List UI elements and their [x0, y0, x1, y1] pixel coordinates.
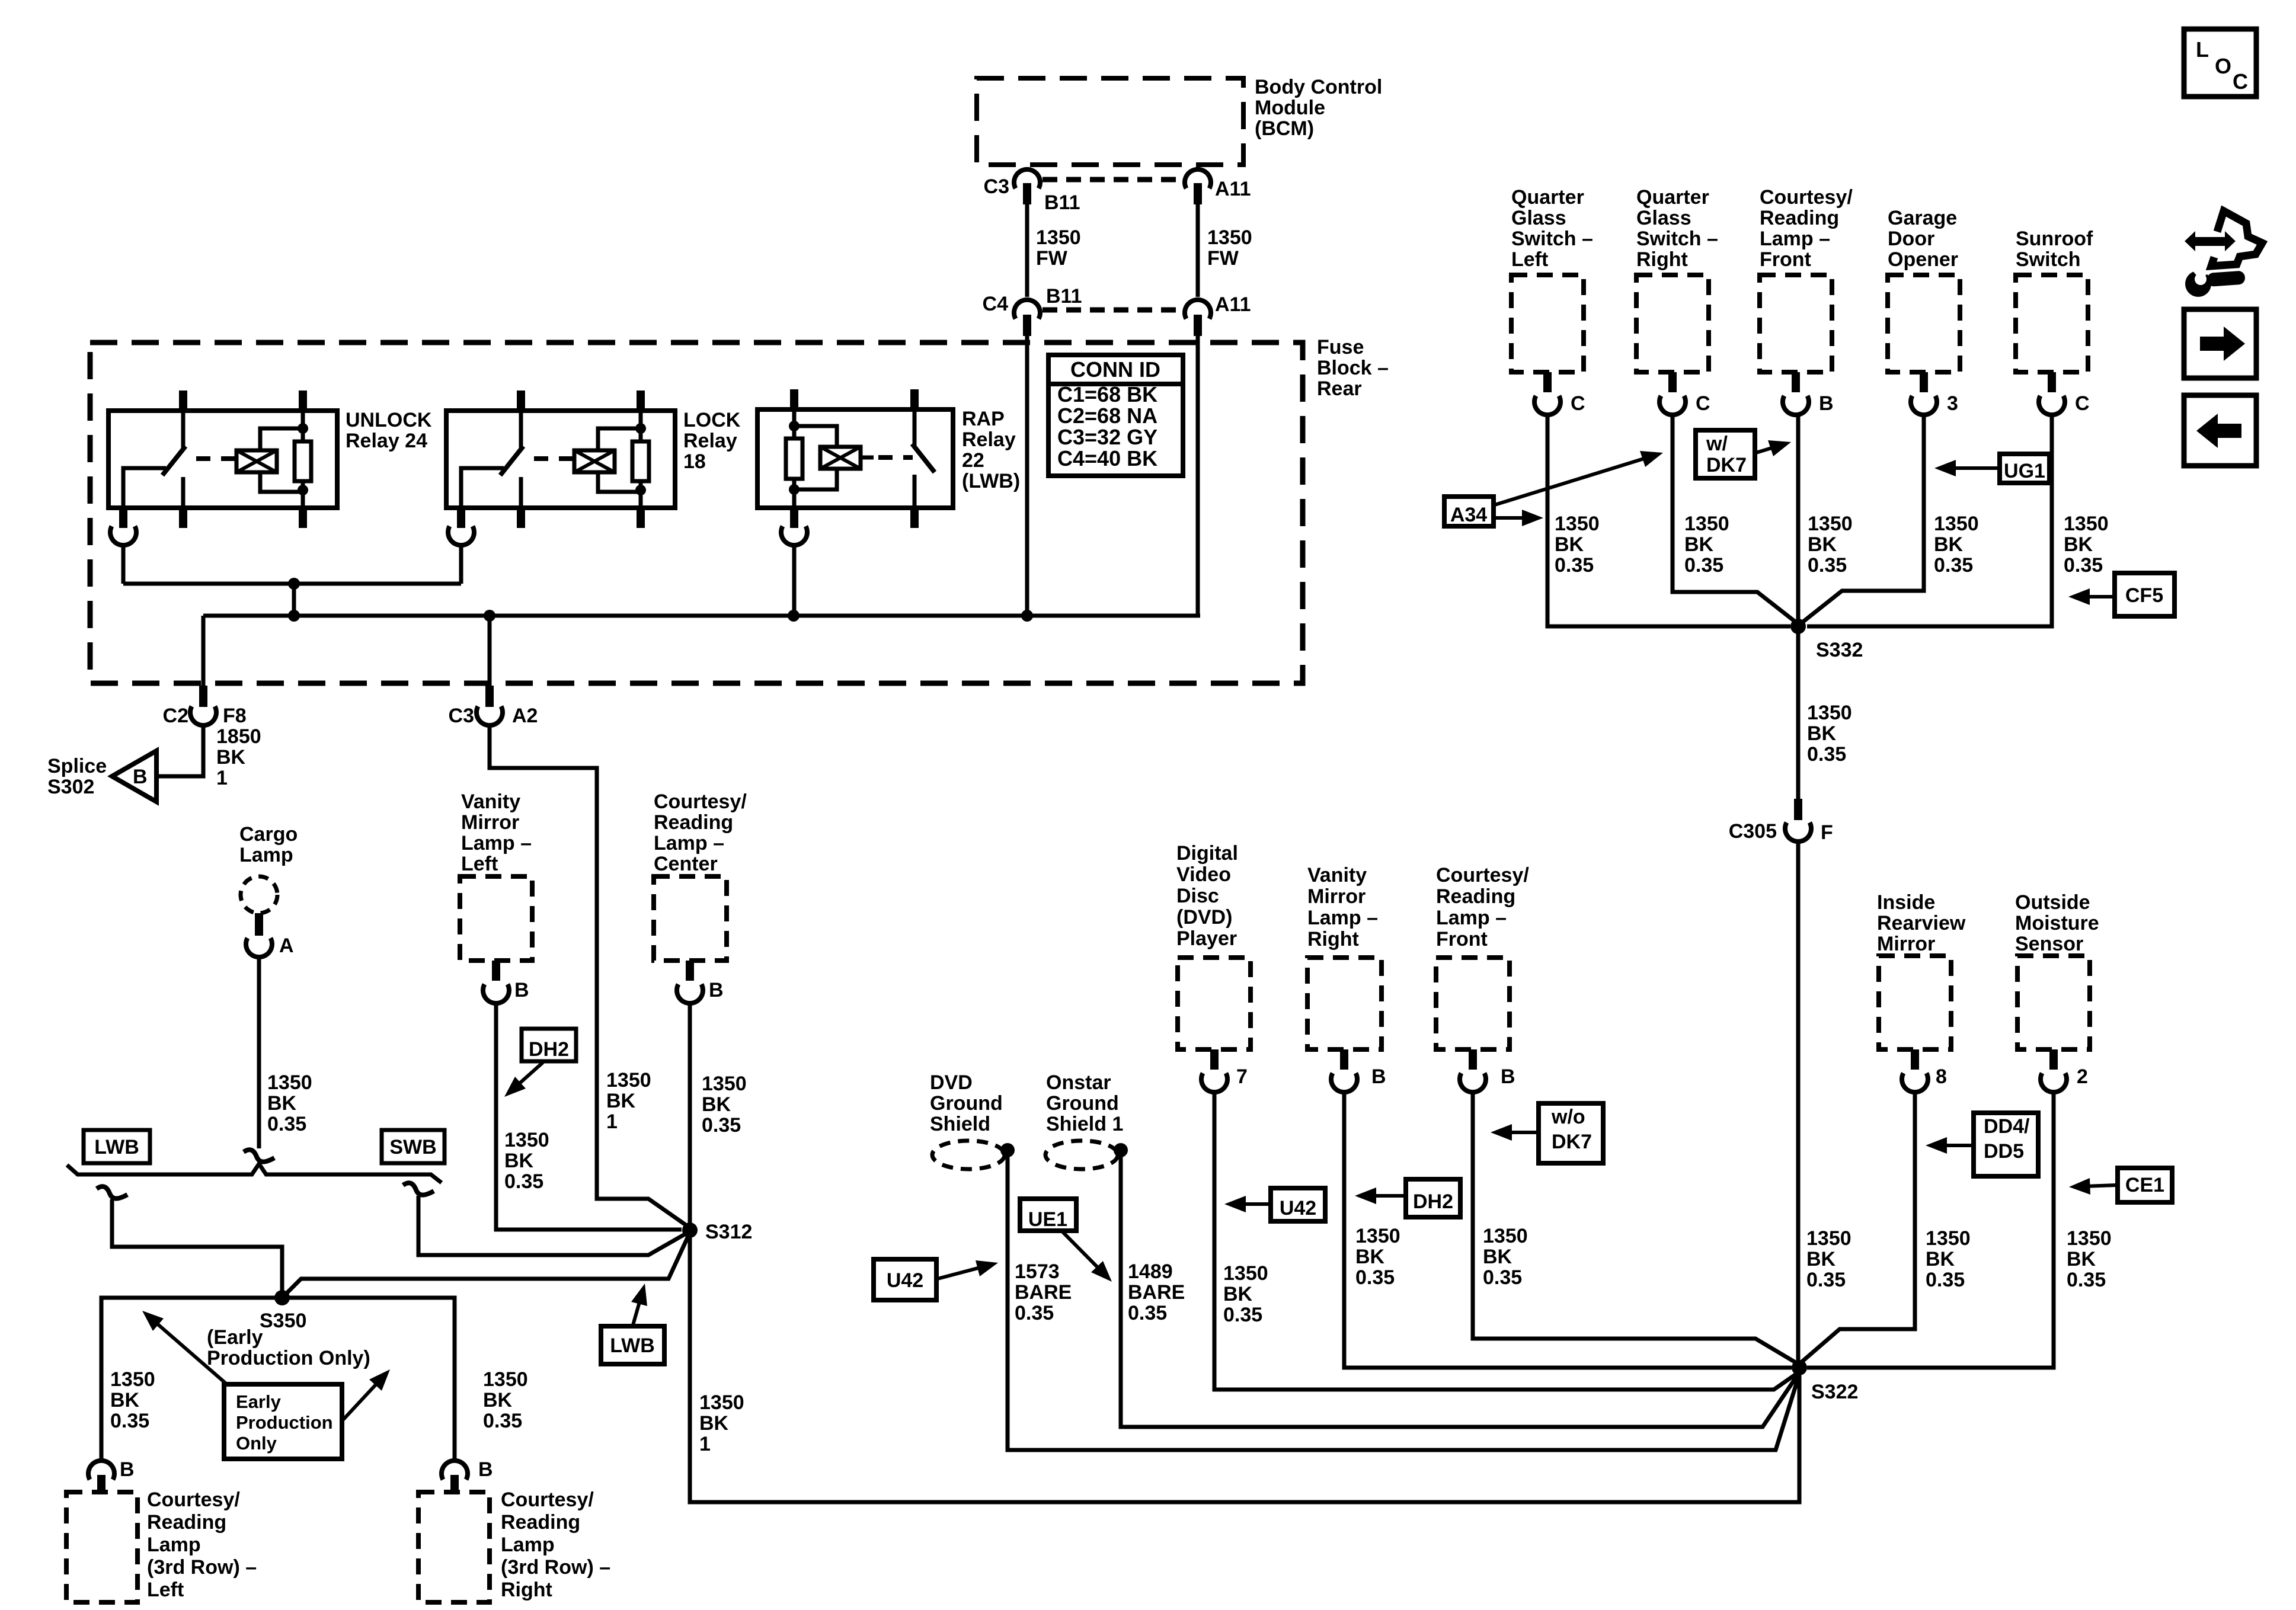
wire bus to C2 [202, 616, 206, 688]
svg-text:(3rd Row) –: (3rd Row) – [501, 1556, 610, 1579]
svg-text:Splice: Splice [47, 755, 107, 777]
wire to resistor RAP [792, 412, 797, 438]
svg-text:18: 18 [683, 450, 706, 473]
label wire 1350 BK 0.35 (3rd row left) [110, 1368, 155, 1432]
svg-text:1: 1 [699, 1433, 711, 1455]
svg-text:C4: C4 [983, 293, 1009, 315]
label 8 [1936, 1065, 1947, 1088]
pin Courtesy/Reading Lamp - Front [1792, 372, 1800, 392]
junction dot DVD shield [1000, 1143, 1015, 1157]
svg-text:Ground: Ground [1046, 1092, 1119, 1115]
svg-text:1: 1 [216, 767, 228, 789]
wire DVD player to S322 [1214, 1091, 1799, 1390]
resistor RAP [786, 438, 802, 479]
wire C305 to S322 [1796, 840, 1801, 1368]
icon box LOC [2184, 29, 2256, 97]
svg-text:UNLOCK: UNLOCK [346, 409, 432, 431]
label C3 [984, 175, 1009, 198]
svg-text:Front: Front [1760, 248, 1811, 271]
svg-text:1350: 1350 [1483, 1225, 1528, 1247]
svg-text:0.35: 0.35 [1926, 1269, 1965, 1291]
component box Inside Rearview Mirror [1879, 956, 1951, 1049]
icon wrench [2185, 263, 2246, 297]
label CONN ID header [1070, 357, 1160, 382]
arrow Early Production to left lamp wire [142, 1311, 228, 1385]
svg-text:DH2: DH2 [529, 1038, 569, 1061]
svg-text:O: O [2215, 54, 2231, 78]
note box Early Production Only [224, 1384, 342, 1459]
label Inside Rearview Mirror [1877, 891, 1966, 955]
label box CE1 [2118, 1168, 2172, 1202]
wire vanity left to S312 [496, 1002, 682, 1230]
wire A11 into fuse block [1196, 336, 1200, 616]
label box DD4/DD5 [1974, 1113, 2038, 1176]
strain squiggle SWB branch [403, 1183, 434, 1195]
label F [1821, 821, 1833, 844]
svg-text:0.35: 0.35 [483, 1410, 522, 1432]
label Vanity Mirror Lamp - Left [461, 790, 532, 875]
wire LOCK Relay 18 to bus [459, 544, 463, 584]
module box Body Control Module (BCM) [977, 78, 1243, 165]
component box Courtesy/Reading Lamp - Front (center) [1436, 958, 1510, 1049]
label L [2196, 37, 2209, 62]
svg-text:Reading: Reading [501, 1511, 580, 1534]
wire LWB branch to S350 [112, 1199, 282, 1298]
svg-text:F8: F8 [223, 705, 247, 727]
svg-text:Early: Early [236, 1391, 282, 1412]
svg-text:(BCM): (BCM) [1255, 117, 1314, 140]
label O [2215, 54, 2231, 78]
svg-text:Lamp: Lamp [501, 1534, 555, 1556]
svg-text:Courtesy/: Courtesy/ [654, 790, 747, 813]
svg-text:Vanity: Vanity [461, 790, 520, 813]
svg-text:Player: Player [1176, 927, 1237, 950]
pin bottom-right LOCK Relay 18 [637, 508, 645, 528]
svg-text:Courtesy/: Courtesy/ [1436, 864, 1529, 886]
svg-text:Center: Center [654, 853, 718, 875]
svg-text:Inside: Inside [1877, 891, 1935, 914]
wire C2 to splice [159, 724, 203, 776]
svg-text:0.35: 0.35 [1015, 1302, 1054, 1324]
svg-text:BK: BK [2067, 1248, 2096, 1270]
svg-text:A11: A11 [1215, 178, 1251, 200]
junction dot upper bus [288, 578, 300, 590]
connector arc Sunroof Switch [2039, 396, 2065, 415]
label CONN ID rows [1057, 382, 1157, 470]
arrow DH2 to vanity right wire [1355, 1188, 1405, 1204]
svg-text:0.35: 0.35 [1128, 1302, 1167, 1324]
arrow UG1 to garage door wire [1934, 460, 1998, 476]
label wire 1350 BK 0.35 (courtesy front) [1483, 1225, 1528, 1289]
svg-text:Lamp –: Lamp – [654, 832, 724, 854]
svg-text:DH2: DH2 [1413, 1190, 1453, 1213]
label S322 [1811, 1381, 1858, 1403]
svg-text:1: 1 [606, 1110, 618, 1133]
svg-text:Cargo: Cargo [239, 823, 298, 846]
ground shield Onstar dashed ellipse [1045, 1141, 1118, 1169]
wire A11 to A11 [1196, 204, 1200, 297]
coil bracket bottom UNLOCK Relay 24 [260, 472, 303, 492]
pin C2 [199, 686, 207, 707]
svg-text:DD5: DD5 [1984, 1140, 2024, 1163]
svg-text:Left: Left [147, 1579, 184, 1601]
svg-text:1350: 1350 [2064, 513, 2109, 535]
label wire 1489 BARE 0.35 [1128, 1260, 1185, 1324]
svg-text:1350: 1350 [1223, 1262, 1268, 1285]
pin courtesy center B [686, 961, 694, 981]
pin Garage Door Opener [1920, 372, 1928, 392]
wire RAP to bus [792, 544, 797, 616]
svg-text:B11: B11 [1046, 285, 1082, 308]
wire C4 into fuse block [1025, 336, 1029, 616]
wire bus main (lower) [203, 614, 1200, 618]
svg-text:1350: 1350 [1806, 1227, 1851, 1250]
svg-text:Relay 24: Relay 24 [346, 430, 427, 452]
label box U42 (left) [874, 1259, 936, 1300]
svg-text:0.35: 0.35 [1807, 743, 1846, 766]
connector C3 (BCM side) arc [1014, 169, 1040, 188]
svg-text:1350: 1350 [110, 1368, 155, 1391]
wire S350 to S312 [282, 1233, 690, 1298]
coil bracket top LOCK Relay 18 [598, 428, 641, 450]
label pin letter B (Courtesy/Reading Lamp - Front) [1819, 392, 1834, 415]
svg-text:A: A [279, 934, 294, 957]
coil bracket bottom LOCK Relay 18 [598, 472, 641, 492]
svg-text:SWB: SWB [389, 1136, 436, 1158]
svg-text:Front: Front [1436, 928, 1488, 950]
svg-text:CE1: CE1 [2125, 1174, 2164, 1196]
svg-text:BK: BK [267, 1092, 297, 1115]
label Outside Moisture Sensor [2015, 891, 2099, 955]
pin rearview mirror 8 [1911, 1049, 1919, 1070]
coil RAP [820, 447, 861, 469]
svg-text:C: C [1571, 392, 1585, 415]
coil bracket top RAP [794, 426, 837, 447]
label Body Control Module (BCM) [1255, 76, 1382, 140]
component box Quarter Glass Switch - Left [1511, 275, 1584, 372]
svg-text:1489: 1489 [1128, 1260, 1173, 1283]
label 2 [2077, 1065, 2088, 1088]
svg-text:1350: 1350 [1808, 513, 1853, 535]
table CONN ID box [1048, 355, 1183, 476]
wire S332 to C305 [1796, 626, 1801, 801]
svg-text:Reading: Reading [1760, 207, 1839, 229]
splice symbol S302 triangle [112, 751, 156, 802]
label C305 [1729, 820, 1777, 843]
wire C3/A2 to S312 [490, 724, 690, 1228]
svg-text:0.35: 0.35 [1555, 554, 1594, 577]
pin C4 [1023, 315, 1031, 336]
svg-text:BK: BK [1223, 1283, 1253, 1305]
wire rearview mirror to S322 [1801, 1091, 1915, 1363]
coil stub RAP [861, 456, 874, 460]
svg-text:BK: BK [1934, 533, 1964, 556]
svg-text:Door: Door [1888, 228, 1934, 250]
svg-text:Courtesy/: Courtesy/ [1760, 186, 1853, 209]
switch contact LOCK Relay 18 [519, 413, 523, 449]
svg-text:Fuse: Fuse [1317, 336, 1364, 359]
ground shield DVD dashed ellipse [932, 1141, 1005, 1169]
svg-text:1850: 1850 [216, 725, 261, 748]
svg-text:(3rd Row) –: (3rd Row) – [147, 1556, 257, 1579]
arrow A34 to quarter right wire [1495, 451, 1663, 505]
svg-text:LOCK: LOCK [683, 409, 741, 431]
junction dot coil top LOCK Relay 18 [635, 423, 646, 434]
pin courtesy front B [1469, 1049, 1477, 1070]
pin top-right RAP [910, 389, 919, 412]
svg-text:Lamp –: Lamp – [1436, 907, 1507, 929]
label pin letter C (Sunroof Switch) [2075, 392, 2090, 415]
svg-text:1350: 1350 [1036, 226, 1081, 249]
wire vanity right to S322 [1344, 1091, 1792, 1368]
component box Courtesy/Reading Lamp (3rd Row) - Left [66, 1492, 137, 1602]
label Splice S302 [47, 755, 107, 798]
svg-text:Module: Module [1255, 97, 1325, 119]
switch lower contact LOCK Relay 18 [519, 477, 523, 508]
component box Courtesy/Reading Lamp - Center [654, 876, 727, 961]
svg-text:Outside: Outside [2015, 891, 2090, 914]
svg-text:Rearview: Rearview [1877, 912, 1966, 934]
svg-text:1350: 1350 [1934, 513, 1979, 535]
svg-text:FW: FW [1036, 247, 1068, 270]
pin vanity left B [492, 961, 500, 981]
junction dot bus at C3 drop [484, 610, 495, 622]
svg-text:UG1: UG1 [2004, 460, 2045, 482]
svg-text:Lamp –: Lamp – [1760, 228, 1830, 250]
label B inside splice [133, 766, 148, 788]
pin bottom-left LOCK Relay 18 [457, 508, 465, 528]
label wire 1350 BK 0.35 (DVD player) [1223, 1262, 1268, 1326]
svg-text:Mirror: Mirror [461, 811, 519, 834]
label box UE1 [1020, 1199, 1076, 1231]
pin moisture sensor 2 [2049, 1049, 2058, 1070]
label C4 [983, 293, 1009, 315]
svg-text:UE1: UE1 [1028, 1208, 1067, 1231]
svg-text:Reading: Reading [147, 1511, 226, 1534]
wire courtesy center through S312 to S322 [690, 1002, 1799, 1502]
label Quarter Glass Switch - Left [1511, 186, 1593, 271]
label pin letter C (Quarter Glass Switch - Right) [1696, 392, 1710, 415]
svg-text:A34: A34 [1450, 504, 1487, 526]
svg-text:Shield: Shield [930, 1113, 990, 1135]
svg-text:1350: 1350 [1684, 513, 1729, 535]
svg-text:L: L [2196, 37, 2209, 62]
arrow U42 to DVD shield wire [938, 1260, 998, 1279]
svg-text:0.35: 0.35 [1806, 1269, 1846, 1291]
pin DVD player 7 [1210, 1049, 1219, 1070]
svg-text:0.35: 0.35 [267, 1113, 306, 1135]
wire C3 to C4 [1025, 204, 1029, 297]
svg-text:Switch –: Switch – [1636, 228, 1718, 250]
svg-text:C: C [1696, 392, 1710, 415]
arrow w/o DK7 to wire [1491, 1124, 1537, 1141]
svg-text:Lamp –: Lamp – [461, 832, 532, 854]
switch contact RAP [913, 412, 917, 446]
pin bottom-right RAP [910, 508, 919, 528]
svg-text:S312: S312 [705, 1221, 752, 1243]
svg-text:LWB: LWB [94, 1136, 139, 1158]
svg-text:0.35: 0.35 [504, 1170, 543, 1193]
svg-text:BK: BK [1807, 722, 1837, 745]
wire SWB branch to S312 [418, 1196, 690, 1255]
label box A34 [1444, 497, 1494, 526]
svg-text:BK: BK [1926, 1248, 1955, 1270]
svg-text:Relay: Relay [683, 430, 737, 452]
svg-text:B: B [514, 979, 529, 1001]
svg-text:1350: 1350 [1355, 1225, 1400, 1247]
pin 3rd row right B [450, 1475, 459, 1493]
arrow A34 to quarter left wire [1495, 510, 1543, 526]
svg-text:w/: w/ [1706, 433, 1728, 455]
svg-text:Onstar: Onstar [1046, 1071, 1111, 1094]
svg-text:Production: Production [236, 1412, 333, 1433]
junction dot Onstar shield [1114, 1143, 1128, 1157]
connector arc moisture sensor [2041, 1073, 2067, 1092]
label C2 [163, 705, 188, 727]
label Courtesy/Reading Lamp - Front (center) [1436, 864, 1529, 950]
label wire 1350 BK 0.35 (vanity right) [1355, 1225, 1400, 1289]
label B11 (bottom) [1046, 285, 1082, 308]
strain squiggle LWB branch [97, 1186, 127, 1198]
svg-text:0.35: 0.35 [1808, 554, 1847, 577]
coil UNLOCK Relay 24 [236, 450, 277, 472]
connector arc below UNLOCK Relay 24 [110, 526, 136, 545]
wire resistor bottom LOCK Relay 18 [639, 481, 643, 508]
label Quarter Glass Switch - Right [1636, 186, 1718, 271]
svg-text:1350: 1350 [267, 1071, 312, 1094]
arrow w/DK7 to courtesy front wire [1756, 440, 1791, 456]
label wire 1350 BK 0.35 (cargo) [267, 1071, 312, 1135]
svg-text:w/o: w/o [1551, 1106, 1585, 1128]
relay box UNLOCK Relay 24 [108, 411, 337, 508]
label wire 1350 BK 1 (upper) [606, 1069, 651, 1133]
svg-text:B11: B11 [1044, 191, 1080, 214]
switch contact UNLOCK Relay 24 [181, 413, 186, 449]
connector C3/A2 arc [477, 706, 503, 725]
component box Courtesy/Reading Lamp - Front [1760, 275, 1832, 372]
svg-text:BK: BK [504, 1150, 534, 1172]
svg-text:Lamp: Lamp [239, 844, 293, 866]
label B (vanity right) [1371, 1065, 1386, 1088]
svg-text:Relay: Relay [962, 428, 1016, 451]
label wire 1350 BK 0.35 (vanity left) [504, 1129, 549, 1193]
wire switch to bottom-left pin LOCK Relay 18 [461, 468, 504, 508]
svg-text:Lamp –: Lamp – [1307, 907, 1378, 929]
svg-text:Opener: Opener [1888, 248, 1958, 271]
svg-text:BK: BK [1808, 533, 1837, 556]
pin 3rd row left B [97, 1475, 105, 1493]
svg-text:1350: 1350 [504, 1129, 549, 1151]
wire UNLOCK Relay 24 to bus [121, 544, 126, 584]
svg-text:DK7: DK7 [1706, 454, 1747, 476]
switch lower contact RAP [913, 475, 917, 508]
pin bottom-left RAP [790, 508, 798, 528]
svg-text:C1=68 BK: C1=68 BK [1057, 382, 1157, 406]
svg-text:BK: BK [216, 746, 246, 769]
arrow U42 to DVD player wire [1224, 1196, 1269, 1212]
label wire 1350 BK 0.35 (courtesy center) [702, 1073, 747, 1137]
svg-text:Sunroof: Sunroof [2016, 228, 2093, 250]
svg-text:B: B [1371, 1065, 1386, 1088]
component box DVD Player [1178, 958, 1251, 1049]
svg-text:1350: 1350 [1207, 226, 1252, 249]
svg-text:S350: S350 [260, 1310, 306, 1332]
pin bottom-left UNLOCK Relay 24 [119, 508, 127, 528]
label wire 1350 BK 0.35 (col 1) [1555, 513, 1600, 577]
svg-text:(Early: (Early [207, 1326, 263, 1349]
svg-text:22: 22 [962, 449, 984, 472]
wire moisture sensor to S322 [1807, 1091, 2054, 1368]
svg-text:0.35: 0.35 [2067, 1269, 2106, 1291]
connector row dashed line fuse block top [1043, 308, 1182, 313]
svg-text:Left: Left [461, 853, 498, 875]
label box LWB (second) [601, 1326, 664, 1364]
resistor LOCK Relay 18 [632, 441, 649, 481]
label Garage Door Opener [1888, 207, 1958, 271]
svg-text:B: B [120, 1458, 135, 1481]
label Cargo Lamp [239, 823, 298, 866]
wire DVD shield to S322 [1008, 1150, 1799, 1450]
svg-text:Production Only): Production Only) [207, 1347, 370, 1369]
label F8 [223, 705, 247, 727]
svg-text:Video: Video [1176, 863, 1231, 886]
svg-text:Mirror: Mirror [1877, 933, 1935, 955]
svg-text:B: B [709, 979, 724, 1001]
arrow UE1 to Onstar wire [1063, 1232, 1112, 1282]
switch blade UNLOCK Relay 24 [162, 446, 186, 475]
svg-text:A2: A2 [512, 705, 538, 727]
connector A11 (BCM side) arc [1185, 169, 1211, 188]
label RAP Relay 22 (LWB) [962, 408, 1020, 492]
svg-text:BK: BK [699, 1412, 729, 1435]
brace wheelbase options [67, 1164, 442, 1183]
component box Sunroof Switch [2016, 275, 2088, 372]
svg-text:1350: 1350 [1807, 702, 1852, 724]
wire switch to bottom-left pin UNLOCK Relay 24 [123, 468, 166, 508]
component box Quarter Glass Switch - Right [1636, 275, 1709, 372]
junction splice S322 [1792, 1360, 1807, 1375]
connector arc Garage Door Opener [1911, 396, 1937, 415]
label UNLOCK Relay 24 [346, 409, 432, 452]
svg-text:C3: C3 [449, 705, 474, 727]
pin Quarter Glass Switch - Right [1668, 372, 1677, 392]
svg-text:Glass: Glass [1636, 207, 1691, 229]
label S332 [1816, 639, 1863, 661]
label Vanity Mirror Lamp - Right [1307, 864, 1378, 950]
wire Sunroof Switch to S332 [1807, 414, 2052, 626]
fuse block dashed border Fuse Block - Rear [90, 343, 1303, 683]
connector arc Courtesy/Reading Lamp - Front [1783, 396, 1809, 415]
svg-text:BARE: BARE [1128, 1281, 1185, 1304]
label wire 1350 FW (right) [1207, 226, 1252, 270]
icon box back arrow [2184, 395, 2256, 466]
label S312 [705, 1221, 752, 1243]
svg-text:B: B [1501, 1065, 1515, 1088]
pin Sunroof Switch [2048, 372, 2056, 392]
label wire 1350 BK 0.35 (col 3) [1808, 513, 1853, 577]
wire resistor top LOCK Relay 18 [639, 413, 643, 441]
connector arc below RAP [781, 526, 807, 545]
junction dot coil bottom LOCK Relay 18 [635, 485, 646, 495]
svg-text:DK7: DK7 [1552, 1131, 1592, 1153]
junction splice S350 [274, 1290, 290, 1305]
label B (3rd row left) [120, 1458, 135, 1481]
svg-text:DD4/: DD4/ [1984, 1115, 2030, 1138]
wire bus link [292, 584, 296, 616]
svg-text:0.35: 0.35 [702, 1114, 741, 1137]
svg-text:Courtesy/: Courtesy/ [147, 1489, 240, 1511]
pin Quarter Glass Switch - Left [1543, 372, 1552, 392]
